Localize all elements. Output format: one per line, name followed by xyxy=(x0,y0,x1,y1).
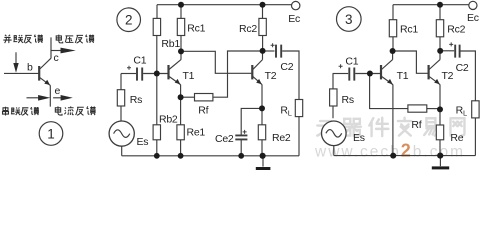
arrowhead current feedback xyxy=(61,95,73,101)
wire Rc2 top xyxy=(262,5,264,19)
resistor Rc1 xyxy=(177,18,184,35)
plus of C2 (panel 3) xyxy=(449,42,453,46)
wire Rc1 top xyxy=(180,5,182,19)
resistor Rb1 xyxy=(153,18,160,35)
svg-text:T2: T2 xyxy=(442,70,454,82)
wire Re1 branch xyxy=(180,97,182,156)
watermark char 件 xyxy=(369,118,388,136)
ground (panel 2) xyxy=(256,167,271,170)
wire Rs branch (panel 3) xyxy=(332,74,334,119)
wire bottom rail (panel 3) xyxy=(334,155,476,157)
resistor Rc2 (panel 3) xyxy=(436,20,443,37)
svg-text:C2: C2 xyxy=(456,62,469,74)
svg-text:Rs: Rs xyxy=(130,94,142,106)
arrowhead emitter (panel 1) xyxy=(44,80,50,85)
wire C2 right to RL xyxy=(282,51,299,100)
svg-text:Rc2: Rc2 xyxy=(447,24,465,36)
svg-text:3: 3 xyxy=(345,12,353,27)
svg-text:c: c xyxy=(54,52,59,64)
wire C1 to T1 base (panel 3) xyxy=(355,73,380,75)
resistor RL (panel 2) xyxy=(295,100,302,117)
wire Rc2 top (panel 3) xyxy=(439,5,441,20)
wire Rc1 top (panel 3) xyxy=(392,5,394,20)
svg-text:e: e xyxy=(55,85,61,97)
source Es (panel 3) xyxy=(322,121,347,146)
junction dot T2 collector (panel 3) xyxy=(437,48,443,54)
svg-text:2: 2 xyxy=(125,13,133,28)
wire top rail (panel 2) xyxy=(157,4,291,6)
transistor T1 (panel 2) xyxy=(169,52,182,85)
arrow series feedback xyxy=(27,97,40,99)
plus of Ce2 xyxy=(243,130,247,134)
junction dot rail T1 emitter xyxy=(390,153,396,159)
junction dot rail Re/ground xyxy=(437,153,443,159)
junction dot T1 collector (panel 3) xyxy=(390,48,396,54)
wire Rb1 bottom to input node xyxy=(156,36,158,74)
wire Rc1 bottom to T1 collector xyxy=(180,36,182,52)
watermark char 交 xyxy=(398,118,411,136)
watermark char 网 xyxy=(450,118,464,135)
junction dot T2 collector xyxy=(260,48,266,54)
wire C1 to base node xyxy=(143,73,167,75)
arrow into base (parallel feedback) xyxy=(15,52,17,64)
wire Rc2 bottom to T2 collector xyxy=(262,36,264,52)
watermark char 易 xyxy=(424,118,437,135)
wire input to C1 xyxy=(121,73,136,75)
svg-text:Rf: Rf xyxy=(411,119,421,131)
plus of C1 (panel 3) xyxy=(339,64,343,68)
svg-text:Re2: Re2 xyxy=(272,132,291,144)
wire bottom rail (panel 2) xyxy=(122,155,299,157)
capacitor C2 (panel 2) xyxy=(276,45,281,58)
wire base feedback: base node down and right to Rf xyxy=(370,74,408,109)
wire Es to bottom rail xyxy=(121,146,123,156)
capacitor C1 (panel 3) xyxy=(349,68,354,81)
svg-text:Rc1: Rc1 xyxy=(400,24,418,36)
resistor Rc2 xyxy=(259,18,266,35)
junction dot T1 collector xyxy=(178,48,184,54)
resistor Re1 xyxy=(177,125,184,140)
wire Re2 branch xyxy=(261,108,263,155)
junction dot rail Re2/ground xyxy=(260,153,266,159)
wire Re bottom xyxy=(439,140,441,156)
resistor Rf (panel 2) xyxy=(195,94,213,101)
wire RL bottom (panel 3) xyxy=(474,118,476,156)
terminal Ec (panel 2) xyxy=(292,1,300,9)
terminal Ec (panel 3) xyxy=(469,1,477,9)
junction dot rail Re1 xyxy=(178,153,184,159)
resistor Rc1 (panel 3) xyxy=(389,20,396,37)
svg-text:Re1: Re1 xyxy=(187,127,206,139)
svg-text:Es: Es xyxy=(353,132,365,144)
svg-text:T1: T1 xyxy=(183,70,195,82)
junction dot top rail Rc2 xyxy=(260,2,266,8)
junction dot Rf right / T2 emitter xyxy=(437,106,443,112)
wire Rf right to T2 emitter (panel 3) xyxy=(427,108,440,110)
wire T1 collector to T2 base (coupling, panel 3) xyxy=(393,51,428,73)
transistor T2 (panel 2) xyxy=(252,51,262,85)
resistor Rb2 xyxy=(153,125,160,140)
ground (panel 3) xyxy=(432,166,449,169)
wire T1 emitter down xyxy=(180,85,182,98)
junction dot top rail Rc1 xyxy=(178,2,184,8)
wire C2 right to RL (panel 3) xyxy=(460,51,475,101)
wire Es to bottom rail (panel 3) xyxy=(333,146,335,156)
wire input corner to C1 (panel 3) xyxy=(333,73,349,75)
wire RL bottom xyxy=(298,117,300,156)
svg-text:C1: C1 xyxy=(345,56,358,68)
arrow current feedback xyxy=(53,97,62,99)
badge 1 xyxy=(39,122,63,146)
junction dot base node (panel 3) xyxy=(367,71,373,77)
wire base lead (panel 1) xyxy=(4,72,39,74)
wire T2 emitter down (panel 3) xyxy=(439,85,441,126)
label 串联反馈 xyxy=(3,107,9,116)
resistor Re2 xyxy=(258,125,265,140)
wire C2 left (panel 3) xyxy=(440,50,454,52)
wire top rail (panel 3) xyxy=(393,4,469,6)
svg-text:Es: Es xyxy=(137,136,149,148)
arrow voltage feedback xyxy=(52,50,63,52)
svg-text:Rb1: Rb1 xyxy=(161,38,180,50)
svg-text:T1: T1 xyxy=(397,70,409,82)
arrowhead T2 emitter xyxy=(256,79,262,84)
arrowhead T1 emitter xyxy=(175,79,181,84)
svg-text:Ce2: Ce2 xyxy=(215,133,234,145)
junction dot rail Rb2 xyxy=(154,153,160,159)
label 电流反馈 xyxy=(55,106,62,115)
wire T1 emitter to rail xyxy=(392,85,394,156)
wire Rb2 branch xyxy=(156,74,158,156)
arrowhead T2 emitter (panel 3) xyxy=(434,79,440,84)
wire C2 left xyxy=(263,50,275,52)
wire T2 emitter to Ce2 xyxy=(241,108,262,134)
svg-text:1: 1 xyxy=(47,126,55,141)
svg-text:b: b xyxy=(27,62,33,74)
wire Rc1 bottom to T1 collector (panel 3) xyxy=(392,37,394,51)
wire Rc2 bottom to T2 collector (panel 3) xyxy=(439,37,441,51)
wire ground stub (panel 2) xyxy=(262,156,264,167)
junction dot T2 emitter xyxy=(259,105,265,111)
arrowhead voltage feedback xyxy=(61,48,76,54)
arrowhead T1 emitter (panel 3) xyxy=(387,79,393,84)
svg-text:Rs: Rs xyxy=(342,94,354,106)
resistor Re xyxy=(436,125,443,140)
svg-text:C1: C1 xyxy=(133,55,146,67)
arrowhead into base xyxy=(13,63,18,73)
junction dot input node (panel 2) xyxy=(154,71,160,77)
badge 3 xyxy=(337,7,362,32)
capacitor C2 (panel 3) xyxy=(455,45,459,58)
plus of C2 (panel 2) xyxy=(271,43,275,47)
wire ground stub (panel 3) xyxy=(439,156,441,167)
resistor Rs (panel 2) xyxy=(117,90,124,106)
watermark char 元 xyxy=(317,121,335,136)
svg-text:T2: T2 xyxy=(265,70,277,82)
badge 2 xyxy=(117,8,141,32)
wire Rf left xyxy=(181,96,195,98)
junction dot top rail Rc2 (panel 3) xyxy=(437,2,443,8)
svg-text:Rb2: Rb2 xyxy=(159,114,178,126)
transistor symbol (panel 1) xyxy=(38,66,40,81)
junction dot rail Ce2 xyxy=(238,153,244,159)
svg-text:C2: C2 xyxy=(280,61,293,73)
resistor Rf (panel 3) xyxy=(408,105,427,112)
svg-text:Rc2: Rc2 xyxy=(239,23,257,35)
wire Rf right + feedback riser to T2 collector xyxy=(213,51,260,97)
svg-text:Rf: Rf xyxy=(198,105,208,117)
watermark char 器 xyxy=(343,119,361,136)
wire T2 emitter down xyxy=(261,85,263,109)
capacitor Ce2 xyxy=(235,135,247,139)
source Es (panel 2) xyxy=(109,121,134,146)
wire T1 collector to T2 base (coupling) xyxy=(181,51,251,73)
label 并联反馈 xyxy=(3,35,11,43)
wire Rs branch xyxy=(120,74,122,122)
transistor T2 (panel 3) xyxy=(429,51,440,85)
arrowhead series feedback xyxy=(38,95,50,101)
junction dot T1 emitter xyxy=(178,94,184,100)
transistor T1 (panel 3) xyxy=(381,51,393,85)
plus of C1 (panel 2) xyxy=(127,66,131,70)
svg-text:Ec: Ec xyxy=(288,13,300,25)
svg-text:Ec: Ec xyxy=(467,12,479,24)
resistor RL (panel 3) xyxy=(472,101,479,118)
svg-text:Re: Re xyxy=(450,132,463,144)
resistor Rs (panel 3) xyxy=(330,89,337,106)
svg-text:Rc1: Rc1 xyxy=(187,23,205,35)
label 电压反馈 xyxy=(56,35,63,43)
capacitor C1 (panel 2) xyxy=(137,68,142,81)
wire Rb1 top xyxy=(156,5,158,19)
wire Ce2 bottom xyxy=(240,140,242,156)
